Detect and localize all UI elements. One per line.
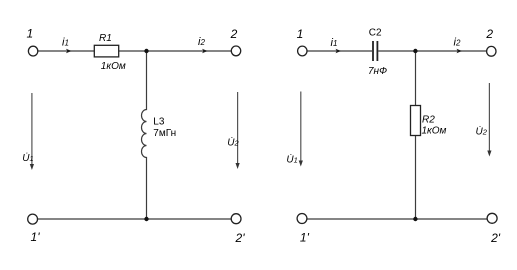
svg-text:2: 2 (485, 27, 493, 41)
svg-text:U̇1: U̇1 (286, 153, 297, 166)
svg-text:i1: i1 (62, 37, 69, 49)
svg-text:1': 1' (300, 231, 310, 245)
svg-text:C2: C2 (369, 27, 382, 38)
svg-text:1кОм: 1кОм (422, 126, 447, 137)
svg-text:i2: i2 (454, 37, 461, 49)
svg-text:1': 1' (31, 230, 41, 244)
svg-text:2: 2 (230, 27, 238, 41)
svg-text:1: 1 (297, 27, 304, 41)
svg-text:1кОм: 1кОм (101, 61, 126, 72)
svg-text:2': 2' (235, 231, 246, 245)
svg-text:2': 2' (490, 231, 501, 245)
svg-text:7нФ: 7нФ (368, 66, 387, 77)
svg-text:U̇2: U̇2 (227, 136, 239, 149)
svg-text:R1: R1 (99, 33, 112, 44)
svg-text:1: 1 (26, 26, 33, 40)
svg-text:U̇2: U̇2 (476, 125, 488, 138)
svg-text:U̇1: U̇1 (22, 151, 33, 164)
svg-text:R2: R2 (422, 114, 435, 125)
svg-text:i2: i2 (198, 36, 205, 48)
svg-text:i1: i1 (331, 37, 338, 49)
svg-text:L3: L3 (153, 117, 165, 128)
svg-text:7мГн: 7мГн (153, 128, 176, 139)
